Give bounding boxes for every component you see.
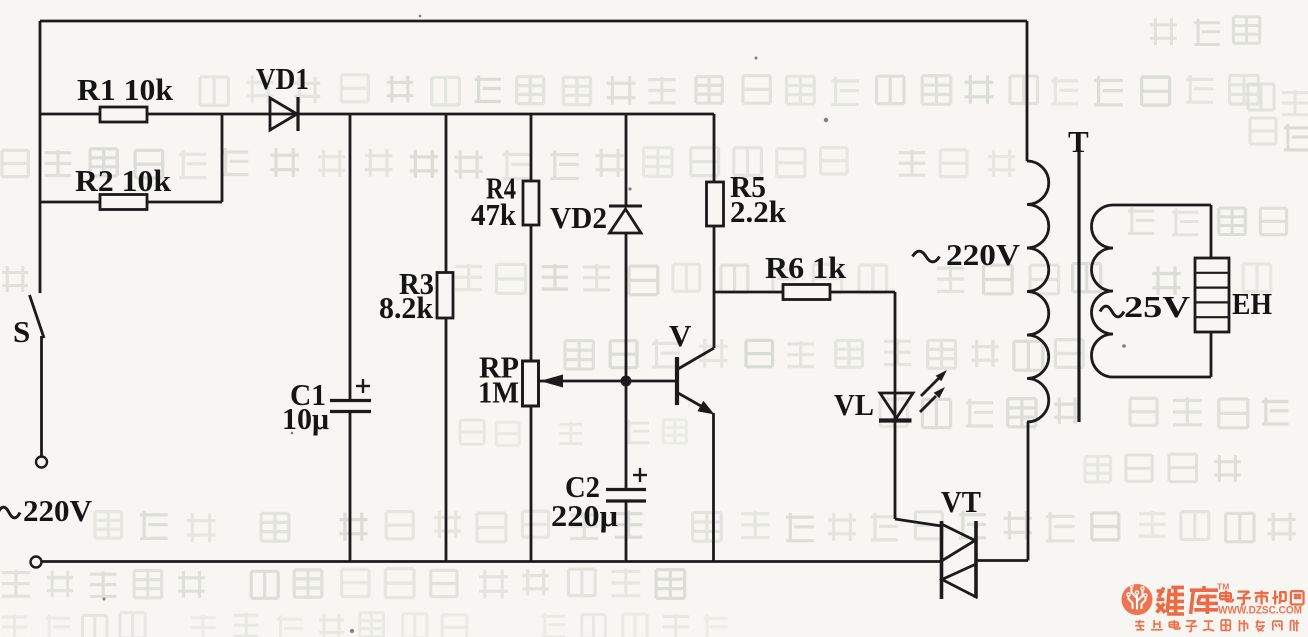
svg-text:220μ: 220μ	[551, 498, 618, 533]
svg-text:R2 10k: R2 10k	[75, 163, 172, 198]
svg-text:TM: TM	[1217, 582, 1229, 592]
svg-text:VT: VT	[941, 484, 981, 519]
svg-text:EH: EH	[1232, 286, 1272, 321]
svg-text:1M: 1M	[478, 375, 519, 410]
svg-text:T: T	[1068, 124, 1089, 159]
svg-text:R1 10k: R1 10k	[77, 72, 174, 107]
svg-text:R6 1k: R6 1k	[765, 250, 847, 285]
svg-text:VD2: VD2	[550, 200, 607, 235]
svg-text:10μ: 10μ	[282, 401, 329, 436]
svg-text:2.2k: 2.2k	[730, 194, 787, 229]
svg-text:S: S	[13, 314, 30, 349]
svg-text:V: V	[669, 318, 692, 353]
svg-text:25V: 25V	[1124, 289, 1191, 324]
svg-text:220V: 220V	[23, 493, 93, 528]
svg-text:VL: VL	[834, 387, 874, 422]
svg-text:VD1: VD1	[256, 61, 309, 96]
svg-text:47k: 47k	[471, 197, 517, 232]
svg-text:220V: 220V	[946, 237, 1021, 272]
svg-text:WWW.DZSC.COM: WWW.DZSC.COM	[1218, 605, 1302, 617]
svg-text:8.2k: 8.2k	[379, 290, 434, 325]
